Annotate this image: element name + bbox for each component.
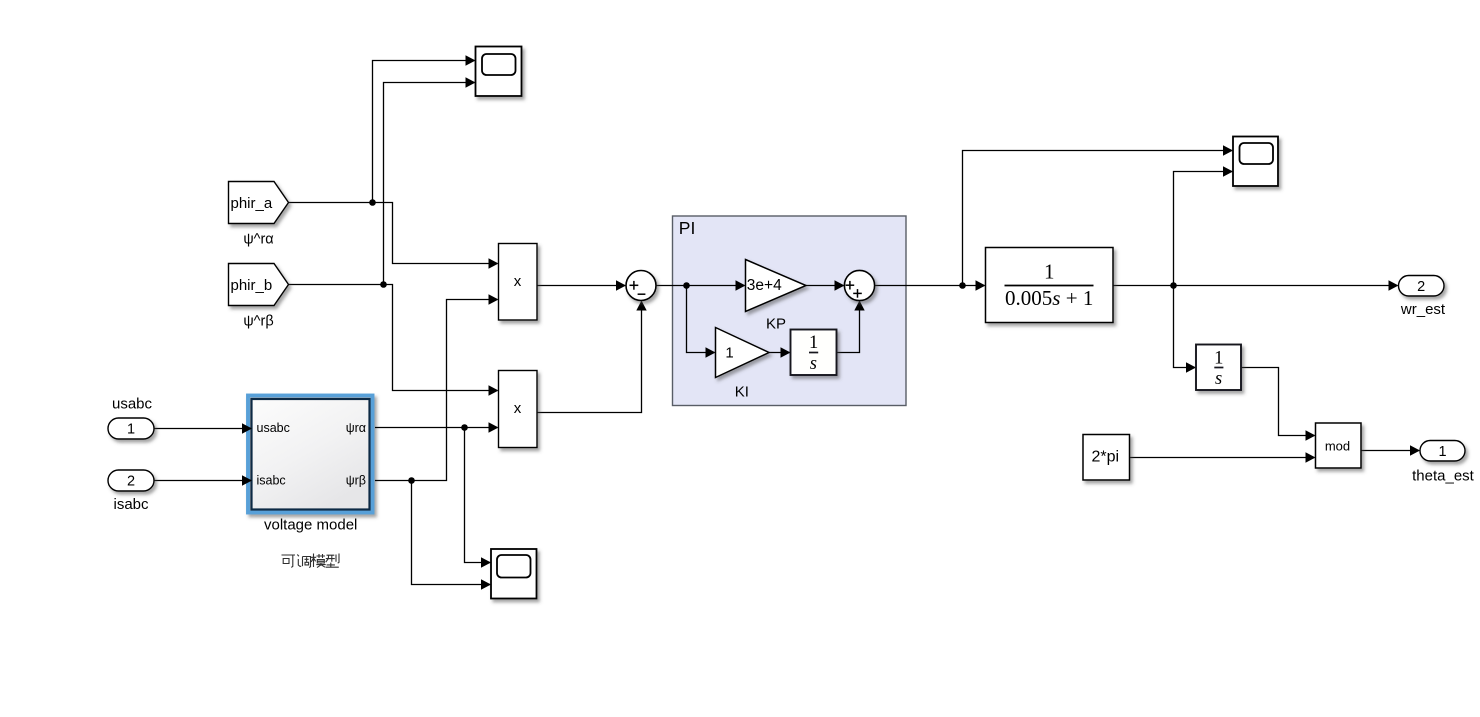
svg-text:usabc: usabc: [112, 396, 153, 413]
svg-text:1: 1: [1438, 444, 1446, 460]
node on psi-r-alpha wire: [461, 424, 468, 431]
transfer fcn 1/(0.005s+1): [986, 248, 1114, 323]
wire Product1 to Sum bottom: [538, 302, 642, 413]
mod block: [1316, 423, 1362, 468]
sum junction +-: [626, 271, 656, 301]
node on phir_a wire: [369, 199, 376, 206]
gain KI 1: [716, 328, 770, 378]
integrator1 1/s (right): [1196, 345, 1241, 391]
svg-text:1: 1: [1214, 348, 1223, 368]
node on phir_b wire: [380, 281, 387, 288]
svg-text:2: 2: [127, 474, 135, 490]
char mo: [311, 554, 326, 568]
outport oval 1 theta_est: [1420, 441, 1465, 462]
label Chinese kě tiáo mó xíng (adjustable model) drawn strokes: [282, 554, 340, 568]
wire In2 isabc to voltage model: [154, 480, 251, 482]
svg-text:1: 1: [809, 333, 818, 353]
wire Transfer Fcn to Out2 wr_est: [1113, 285, 1398, 287]
wire psi-r-alpha branch to Scope1: [465, 428, 491, 563]
svg-text:x: x: [514, 400, 522, 417]
svg-text:isabc: isabc: [113, 496, 149, 513]
svg-text:mod: mod: [1325, 439, 1350, 454]
wire branch to Scope2 in2: [1174, 172, 1233, 286]
wire branch Sum out to KI gain: [687, 286, 715, 353]
node on wr_est wire: [1170, 282, 1177, 289]
char xing: [326, 554, 340, 568]
wire 2*pi constant to mod in2: [1130, 457, 1315, 459]
scope (bottom): [491, 549, 537, 599]
char ke: [282, 555, 296, 567]
svg-text:x: x: [514, 273, 522, 290]
svg-text:usabc: usabc: [257, 421, 290, 435]
svg-text:2: 2: [1417, 279, 1425, 295]
svg-text:0.005s + 1: 0.005s + 1: [1005, 286, 1093, 310]
svg-text:voltage model: voltage model: [264, 517, 357, 534]
char tiao: [297, 555, 310, 568]
inport tag phir_b: [229, 264, 289, 306]
node before Transfer Fcn: [959, 282, 966, 289]
inport oval 1: [108, 418, 154, 439]
node on Sum out wire: [683, 282, 690, 289]
outport oval 2 wr_est: [1399, 276, 1445, 297]
svg-text:ψrβ: ψrβ: [346, 473, 366, 487]
wire KP gain to Sum1: [806, 285, 844, 287]
wire Sum to KP gain: [656, 285, 745, 287]
svg-text:ψrα: ψrα: [346, 421, 366, 435]
wire In1 usabc to voltage model: [154, 428, 251, 430]
svg-text:KP: KP: [766, 315, 786, 332]
product block x (upper): [499, 244, 538, 321]
wire phir_b branch to Scope: [384, 83, 475, 285]
gain KP 3e+4: [746, 260, 807, 312]
svg-text:phir_b: phir_b: [231, 277, 273, 294]
sum junction ++: [844, 270, 874, 300]
wire mod to Out1 theta_est: [1361, 450, 1419, 452]
wire Integrator to Sum1 bottom: [837, 302, 860, 353]
scope2 (top right): [1233, 137, 1278, 187]
wire phir_b to Product1: [289, 285, 498, 391]
wire psi-r-beta branch to Scope1: [412, 481, 491, 585]
inport tag phir_a: [229, 182, 289, 224]
svg-text:1: 1: [1044, 259, 1055, 283]
inport oval 2: [108, 470, 154, 491]
wire branch to Integrator1: [1174, 286, 1196, 368]
svg-text:isabc: isabc: [257, 473, 286, 487]
wire voltage model psi-r-alpha to Product1 in2: [375, 427, 498, 429]
svg-text:phir_a: phir_a: [231, 195, 273, 212]
wire phir_a to Product: [289, 203, 498, 264]
svg-text:ψ^rα: ψ^rα: [243, 232, 273, 248]
product block x (lower): [499, 371, 538, 448]
svg-text:PI: PI: [679, 218, 696, 238]
wire branch to Scope2 in1: [963, 151, 1233, 286]
svg-text:1: 1: [127, 422, 135, 438]
svg-text:s: s: [810, 354, 817, 374]
subsystem voltage model: [248, 396, 373, 513]
svg-text:wr_est: wr_est: [1400, 301, 1446, 318]
integrator 1/s (in PI): [791, 330, 837, 376]
wire KI gain to Integrator: [769, 352, 790, 354]
svg-text:KI: KI: [735, 383, 749, 400]
svg-text:ψ^rβ: ψ^rβ: [243, 314, 273, 330]
svg-text:s: s: [1215, 369, 1222, 389]
Scope (top left): [476, 47, 522, 97]
wire Product to Sum: [537, 285, 625, 287]
PI subsystem area box: [673, 216, 907, 406]
wire voltage model psi-r-beta to Product in2: [375, 300, 498, 481]
svg-text:1: 1: [725, 344, 733, 361]
node on psi-r-beta wire: [408, 477, 415, 484]
constant 2*pi: [1083, 435, 1130, 481]
svg-text:3e+4: 3e+4: [747, 277, 782, 294]
wire phir_a branch to Scope: [373, 61, 475, 203]
wire Integrator1 to mod in1: [1241, 368, 1315, 436]
svg-text:theta_est: theta_est: [1412, 468, 1475, 485]
svg-text:2*pi: 2*pi: [1092, 449, 1120, 466]
wire Sum1 to Transfer Fcn: [875, 285, 985, 287]
